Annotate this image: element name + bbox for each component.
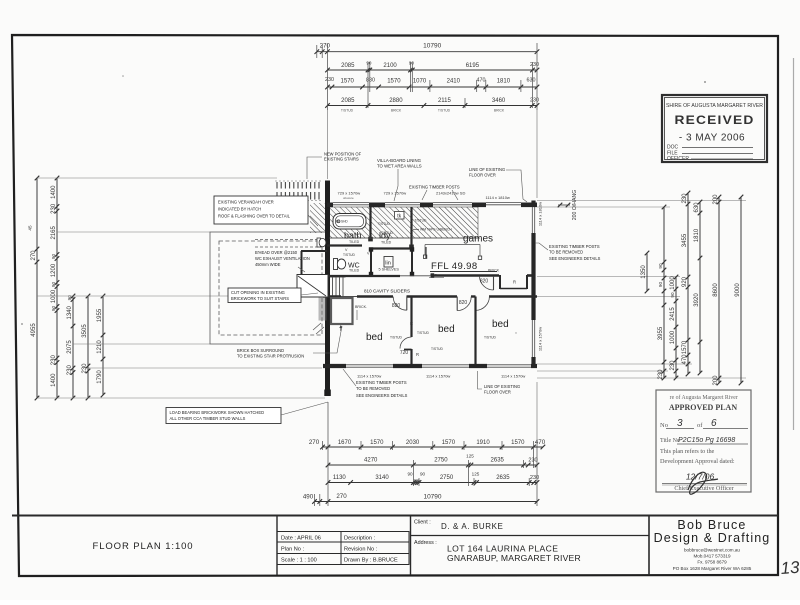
svg-text:games: games <box>463 234 493 245</box>
svg-text:Address :: Address : <box>414 540 437 546</box>
svg-text:EXISTING TIMBER POSTS: EXISTING TIMBER POSTS <box>409 184 460 189</box>
left dimension chain E <box>102 296 104 395</box>
svg-text:1130: 1130 <box>333 475 347 481</box>
svg-text:90: 90 <box>407 472 413 477</box>
svg-text:2030: 2030 <box>406 440 420 446</box>
witness drop lines to building <box>327 110 329 179</box>
svg-text:4270: 4270 <box>364 458 378 464</box>
svg-text:3955: 3955 <box>658 326 664 340</box>
lin closet walls <box>369 247 414 249</box>
svg-text:TO BE REMOVED: TO BE REMOVED <box>356 386 390 391</box>
svg-text:1114 x 1570w: 1114 x 1570w <box>538 327 543 351</box>
north wall windows <box>333 201 369 203</box>
svg-text:3920: 3920 <box>694 293 700 307</box>
svg-text:1910: 1910 <box>476 440 490 446</box>
svg-text:720: 720 <box>400 350 409 356</box>
svg-text:BRICK.: BRICK. <box>355 305 367 309</box>
svg-text:1200: 1200 <box>51 263 57 277</box>
svg-text:2635: 2635 <box>491 458 505 464</box>
svg-text:270: 270 <box>31 250 37 261</box>
svg-text:T/STUD: T/STUD <box>484 336 497 340</box>
bottom dimension chain row 4 <box>315 501 538 503</box>
svg-text:2075: 2075 <box>67 340 73 354</box>
title block divider 1 <box>276 516 278 576</box>
right dimension chain col 6 <box>718 197 720 383</box>
games west nib wall <box>425 247 427 258</box>
svg-text:FLOOR PLAN 1:100: FLOOR PLAN 1:100 <box>93 541 194 552</box>
svg-text:Title No: Title No <box>660 438 680 444</box>
svg-text:125: 125 <box>466 454 474 459</box>
svg-text:1570: 1570 <box>682 340 688 354</box>
svg-text:230: 230 <box>51 355 57 366</box>
svg-text:1400: 1400 <box>51 373 57 387</box>
svg-text:Plan No :: Plan No : <box>281 547 304 553</box>
left dimension chain B <box>56 178 58 398</box>
svg-text:TILED: TILED <box>349 240 360 244</box>
svg-text:tk: tk <box>397 213 401 219</box>
hall north wall (games side) with robe nook <box>434 274 499 277</box>
wc toilet <box>334 259 338 270</box>
svg-text:T/STUD: T/STUD <box>431 347 444 351</box>
svg-text:GNARABUP, MARGARET RIVER: GNARABUP, MARGARET RIVER <box>447 553 581 563</box>
svg-text:90: 90 <box>51 254 56 260</box>
hall north wall (west part) <box>327 275 400 277</box>
svg-text:1570: 1570 <box>511 440 525 446</box>
top chain witness lines <box>316 45 318 58</box>
svg-text:2415: 2415 <box>670 307 676 321</box>
hatch: verandah over wet area band <box>329 207 478 238</box>
svg-text:Description :: Description : <box>344 536 376 542</box>
tk box <box>395 212 405 220</box>
north exterior wall <box>327 203 333 208</box>
existing verandah outline (solid) <box>210 232 326 344</box>
svg-text:90: 90 <box>420 472 426 477</box>
svg-text:B'HEAD OVER @2150: B'HEAD OVER @2150 <box>255 250 298 255</box>
svg-text:EXISTING TIMBER POSTS: EXISTING TIMBER POSTS <box>549 244 600 249</box>
svg-text:90: 90 <box>366 61 372 66</box>
svg-text:90: 90 <box>670 292 675 298</box>
svg-text:Client :: Client : <box>414 520 431 526</box>
svg-text:125: 125 <box>472 472 480 477</box>
svg-text:729 x 1570w: 729 x 1570w <box>384 191 407 196</box>
svg-text:90: 90 <box>51 282 56 288</box>
svg-text:Mob.0417 573319: Mob.0417 573319 <box>693 554 730 559</box>
svg-text:1570: 1570 <box>370 440 384 446</box>
svg-text:T/STUD: T/STUD <box>390 336 403 340</box>
svg-text:TILED: TILED <box>381 241 392 245</box>
svg-text:LOT 164 LAURINA PLACE: LOT 164 LAURINA PLACE <box>447 544 558 554</box>
svg-text:ALL OTHER CCA TIMBER STUD WALL: ALL OTHER CCA TIMBER STUD WALLS <box>170 416 246 421</box>
svg-text:1350: 1350 <box>641 265 647 279</box>
svg-text:bath: bath <box>344 231 362 241</box>
svg-text:INDICATED BY HATCH: INDICATED BY HATCH <box>218 207 261 212</box>
svg-text:2750: 2750 <box>440 475 454 481</box>
svg-text:bobbruce@westnet.com.au: bobbruce@westnet.com.au <box>684 548 740 553</box>
svg-text:3455: 3455 <box>682 233 688 247</box>
right dimension chain col 5 <box>699 202 701 373</box>
svg-text:P2C15o Pg 16698: P2C15o Pg 16698 <box>678 437 735 444</box>
svg-text:230: 230 <box>682 193 688 204</box>
svg-text:230: 230 <box>51 203 57 214</box>
note box: cut opening <box>228 288 301 303</box>
svg-text:1810: 1810 <box>694 228 700 242</box>
client/address divider <box>410 516 412 576</box>
svg-text:re of Augusta Margaret River: re of Augusta Margaret River <box>668 394 738 401</box>
svg-text:Development Approval dated:: Development Approval dated: <box>660 458 735 465</box>
svg-text:Revision No :: Revision No : <box>344 547 378 553</box>
svg-text:WC EXHAUST VENTILATION: WC EXHAUST VENTILATION <box>255 256 310 261</box>
svg-text:obscure: obscure <box>343 196 354 200</box>
note box: load bearing brickwork <box>166 408 281 424</box>
new stairs dashed comb (top) <box>276 182 278 189</box>
door arc bed1 <box>392 297 407 311</box>
svg-text:230: 230 <box>528 458 537 464</box>
svg-text:FFL 49.98: FFL 49.98 <box>431 261 478 272</box>
south exterior wall <box>323 364 346 368</box>
svg-text:of: of <box>697 422 703 429</box>
svg-text:6: 6 <box>711 418 717 429</box>
svg-text:230: 230 <box>67 365 73 376</box>
svg-text:630: 630 <box>694 202 700 213</box>
svg-text:bed: bed <box>438 324 455 335</box>
svg-text:Fx. 9758 8679: Fx. 9758 8679 <box>697 560 727 565</box>
svg-text:3: 3 <box>677 418 683 429</box>
svg-text:2085: 2085 <box>341 63 355 69</box>
svg-text:200: 200 <box>713 375 719 386</box>
svg-text:T/STUD: T/STUD <box>341 109 354 113</box>
bath tub <box>333 214 366 230</box>
svg-text:1955: 1955 <box>97 308 103 322</box>
svg-text:BRICKWORK TO SUIT STAIRS: BRICKWORK TO SUIT STAIRS <box>231 296 289 301</box>
east exterior wall <box>531 201 535 208</box>
left dimension chain C <box>72 296 74 398</box>
wall bath/ldy <box>369 207 371 241</box>
svg-text:APPROVED PLAN: APPROVED PLAN <box>669 403 737 412</box>
svg-text:LOAD BEARING BRICKWORK SHOWN H: LOAD BEARING BRICKWORK SHOWN HATCHED <box>170 410 265 415</box>
svg-text:2100: 2100 <box>383 63 397 69</box>
svg-text:1570: 1570 <box>442 440 456 446</box>
svg-text:470: 470 <box>535 439 546 446</box>
svg-text:200: 200 <box>713 194 719 205</box>
right dimension chain col 7 <box>740 197 742 383</box>
svg-text:1570: 1570 <box>387 79 401 85</box>
door arc games <box>480 276 494 290</box>
svg-text:1210: 1210 <box>97 340 103 354</box>
right dimension chain col 4 <box>687 193 689 374</box>
svg-text:1570: 1570 <box>341 79 355 85</box>
svg-text:230: 230 <box>530 475 539 481</box>
paper scan edge right <box>793 58 795 430</box>
svg-text:729 x 1570w: 729 x 1570w <box>338 191 361 196</box>
svg-text:2165: 2165 <box>51 225 57 239</box>
svg-text:bed: bed <box>366 332 383 343</box>
svg-text:TO EXISTING STAIR PROTRUSION: TO EXISTING STAIR PROTRUSION <box>237 354 304 359</box>
bed1/bed2 divider wall <box>410 297 412 338</box>
svg-text:820: 820 <box>392 303 401 309</box>
svg-text:T/STUD: T/STUD <box>343 253 356 257</box>
svg-text:5 SHELVES: 5 SHELVES <box>379 268 400 272</box>
svg-text:1114 x 1570w: 1114 x 1570w <box>357 374 381 379</box>
note box: existing verandah over <box>214 196 308 224</box>
svg-text:1790: 1790 <box>97 370 103 384</box>
received stamp box <box>662 95 767 162</box>
svg-text:SEE ENGINEERS DETAILS: SEE ENGINEERS DETAILS <box>549 256 601 261</box>
svg-text:270: 270 <box>309 439 320 446</box>
svg-text:2115: 2115 <box>438 98 452 104</box>
svg-text:1114 x 1570w: 1114 x 1570w <box>501 374 525 379</box>
svg-text:2635: 2635 <box>496 475 510 481</box>
svg-text:1670: 1670 <box>338 440 352 446</box>
svg-text:10790: 10790 <box>423 43 441 50</box>
wall ldy/games <box>410 207 412 248</box>
svg-text:270: 270 <box>320 43 331 50</box>
existing thick brick wall (west) <box>325 181 330 397</box>
svg-text:2750: 2750 <box>434 458 448 464</box>
svg-text:No: No <box>660 422 668 429</box>
svg-text:T/STUD: T/STUD <box>438 109 451 113</box>
verandah toilet <box>317 238 320 247</box>
right dimension chain col 3 <box>675 277 677 378</box>
svg-text:T/STUD: T/STUD <box>415 219 428 223</box>
left dimension chain D <box>87 296 89 398</box>
svg-text:D. & A. BURKE: D. & A. BURKE <box>441 522 503 531</box>
svg-text:2085: 2085 <box>341 98 355 104</box>
svg-text:630: 630 <box>527 78 536 84</box>
svg-text:270: 270 <box>336 493 347 500</box>
right chain witness lines from building <box>537 200 746 202</box>
svg-text:OFFICER: OFFICER <box>667 156 689 162</box>
svg-text:VILLA-BOARD LINING: VILLA-BOARD LINING <box>377 158 422 163</box>
svg-text:Scale : 1 : 100: Scale : 1 : 100 <box>281 558 317 564</box>
svg-text:1810: 1810 <box>497 79 511 85</box>
door arc bed3 <box>476 297 490 311</box>
hall south wall <box>323 295 341 297</box>
existing verandah dashed outline <box>219 241 322 335</box>
svg-text:T/STUD: T/STUD <box>417 331 430 335</box>
wall bath south <box>327 244 362 246</box>
svg-text:EXISTING TIMBER POSTS: EXISTING TIMBER POSTS <box>356 380 407 385</box>
svg-text:LINE OF EXISTING: LINE OF EXISTING <box>484 384 520 389</box>
approved plan stamp <box>656 390 751 494</box>
svg-text:BRICK: BRICK <box>488 269 500 273</box>
svg-text:2410: 2410 <box>447 79 461 85</box>
svg-text:- 3 MAY 2006: - 3 MAY 2006 <box>679 133 745 144</box>
svg-text:13: 13 <box>780 558 800 578</box>
south wall windows <box>346 364 393 366</box>
svg-text:3140: 3140 <box>375 475 389 481</box>
top dimension chain row 2 (2085/90/2100/90/6195/230) <box>328 69 538 71</box>
top dimension chain row 1 (270 | 10790) <box>317 51 537 53</box>
bhead dashed lines <box>255 246 322 248</box>
brick box surround below <box>331 298 353 324</box>
svg-text:LINE OF EXISTING: LINE OF EXISTING <box>469 167 505 172</box>
svg-text:TOS: TOS <box>430 274 438 278</box>
svg-text:200 O/HANG: 200 O/HANG <box>572 190 578 221</box>
svg-text:Design & Drafting: Design & Drafting <box>654 531 771 545</box>
svg-text:lin: lin <box>385 261 391 267</box>
svg-text:1000: 1000 <box>670 276 676 290</box>
wc west wall <box>301 250 327 252</box>
svg-text:230: 230 <box>658 369 664 380</box>
left chain witness lines <box>37 177 277 179</box>
right dimension chain (1350) <box>646 253 648 291</box>
svg-text:1400: 1400 <box>51 185 57 199</box>
svg-text:1114 x 1570w: 1114 x 1570w <box>426 374 450 379</box>
svg-text:T/STUD: T/STUD <box>381 231 394 235</box>
svg-text:470: 470 <box>477 78 486 84</box>
svg-text:BRICK BOX SURROUND: BRICK BOX SURROUND <box>237 348 284 353</box>
svg-text:830: 830 <box>366 78 375 84</box>
door arc bed2 <box>457 297 471 311</box>
svg-text:FLOOR OVER: FLOOR OVER <box>469 173 496 178</box>
top dimension chain row 3 <box>328 86 538 88</box>
bottom dimension chain row 1 <box>323 446 543 448</box>
svg-text:R: R <box>410 321 413 326</box>
svg-text:CUT OPENING IN EXISTING: CUT OPENING IN EXISTING <box>231 290 285 295</box>
wall break marks <box>313 323 324 334</box>
svg-text:2143x2410w SD: 2143x2410w SD <box>436 191 465 196</box>
svg-text:90: 90 <box>51 306 56 312</box>
svg-text:T/STUD: T/STUD <box>378 222 391 226</box>
title block top line <box>12 515 778 517</box>
top dimension chain row 4 with wall-type labels <box>328 105 538 107</box>
svg-text:45: 45 <box>28 225 33 231</box>
svg-text:BRICK: BRICK <box>391 109 402 113</box>
scan specks <box>704 81 706 83</box>
svg-text:bed: bed <box>492 319 509 330</box>
hatch: west of existing wall <box>310 203 328 233</box>
svg-text:Chief Executive Officer: Chief Executive Officer <box>674 485 733 492</box>
svg-text:450mm WIDE: 450mm WIDE <box>255 262 281 267</box>
svg-text:820: 820 <box>459 300 468 306</box>
svg-text:1114 x 1810w: 1114 x 1810w <box>486 195 510 200</box>
svg-text:90: 90 <box>409 61 415 66</box>
svg-text:90: 90 <box>658 282 663 288</box>
200 overhang dim <box>558 204 570 206</box>
svg-text:9000: 9000 <box>735 283 741 297</box>
svg-text:WM TAPS U/BENCH: WM TAPS U/BENCH <box>420 228 452 232</box>
svg-text:FLOOR OVER: FLOOR OVER <box>484 390 511 395</box>
svg-text:TO WET AREA WALLS: TO WET AREA WALLS <box>377 164 422 169</box>
svg-text:810 CAVITY SLIDERS: 810 CAVITY SLIDERS <box>364 289 410 294</box>
svg-text:This plan refers to the: This plan refers to the <box>660 448 715 455</box>
svg-text:230: 230 <box>530 62 539 68</box>
svg-text:820: 820 <box>480 279 489 285</box>
svg-text:SEE ENGINEERS DETAILS: SEE ENGINEERS DETAILS <box>356 393 408 398</box>
bottom dimension chain row 2 <box>328 464 537 466</box>
svg-text:1070: 1070 <box>413 79 427 85</box>
svg-text:920: 920 <box>682 276 688 287</box>
svg-text:RECEIVED: RECEIVED <box>675 115 755 127</box>
svg-text:100: 100 <box>414 478 420 482</box>
svg-text:3460: 3460 <box>492 98 506 104</box>
svg-text:EXISTING VERANDAH OVER: EXISTING VERANDAH OVER <box>218 200 274 205</box>
svg-text:230: 230 <box>325 77 334 83</box>
svg-text:230: 230 <box>530 98 539 104</box>
svg-text:8600: 8600 <box>713 283 719 297</box>
svg-text:470: 470 <box>682 354 688 365</box>
signature squiggle <box>688 472 718 494</box>
games opening bracket with posts <box>425 244 480 246</box>
bottom dimension chain row 3 <box>328 482 537 484</box>
svg-text:TILED: TILED <box>349 269 360 273</box>
bench front line <box>329 237 480 239</box>
svg-text:4955: 4955 <box>31 323 37 337</box>
svg-text:BF SHD: BF SHD <box>336 219 348 223</box>
svg-text:10790: 10790 <box>423 493 441 500</box>
left dimension chain A <box>36 178 38 398</box>
stairs in wc protrusion <box>297 275 328 298</box>
svg-text:2880: 2880 <box>389 98 403 104</box>
svg-text:90: 90 <box>658 263 663 269</box>
svg-text:R: R <box>513 280 516 285</box>
svg-text:3505: 3505 <box>82 324 88 338</box>
svg-text:Bob Bruce: Bob Bruce <box>677 518 746 532</box>
right dimension chain col 2 <box>663 207 665 378</box>
svg-text:SHIRE OF AUGUSTA MARGARET RIVE: SHIRE OF AUGUSTA MARGARET RIVER <box>666 103 763 109</box>
bob bruce box <box>648 516 650 576</box>
svg-text:EXISTING STAIRS: EXISTING STAIRS <box>324 157 359 162</box>
svg-text:1114 x 1810w: 1114 x 1810w <box>538 202 543 226</box>
svg-text:1340: 1340 <box>67 305 73 319</box>
svg-text:230: 230 <box>82 363 88 374</box>
svg-text:Drawn By : B.BRUCE: Drawn By : B.BRUCE <box>344 558 398 564</box>
bed2/bed3 divider wall <box>474 297 476 365</box>
date table <box>277 532 409 565</box>
svg-text:6195: 6195 <box>466 63 480 69</box>
east wall windows <box>531 207 533 233</box>
svg-text:490: 490 <box>303 493 314 500</box>
svg-text:90: 90 <box>67 295 72 301</box>
svg-text:Date : APRIL 06: Date : APRIL 06 <box>281 536 321 542</box>
svg-text:R: R <box>416 352 419 357</box>
svg-text:PO Box 1628 Margaret River: PO Box 1628 Margaret River WA 6285 <box>673 566 752 571</box>
svg-text:230: 230 <box>670 360 676 371</box>
bottom chain witness lines <box>327 402 329 506</box>
door arc 720 <box>400 337 412 349</box>
svg-text:TO BE REMOVED: TO BE REMOVED <box>549 250 583 255</box>
svg-text:1000: 1000 <box>670 330 676 344</box>
svg-text:ROOF & FLASHING OVER TO DETAIL: ROOF & FLASHING OVER TO DETAIL <box>218 214 291 219</box>
svg-text:BRICK: BRICK <box>494 109 505 113</box>
